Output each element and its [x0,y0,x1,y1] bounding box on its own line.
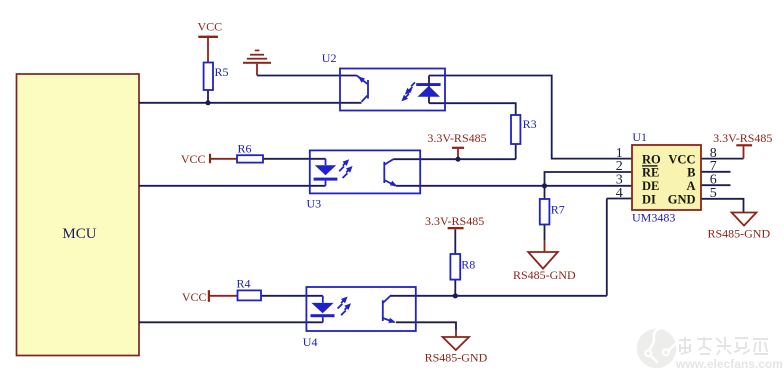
svg-text:U2: U2 [322,51,337,65]
svg-text:R4: R4 [237,277,251,291]
svg-text:3.3V-RS485: 3.3V-RS485 [427,131,486,145]
svg-text:3.3V-RS485: 3.3V-RS485 [425,214,484,228]
svg-text:R3: R3 [523,117,537,131]
svg-text:VCC: VCC [197,20,222,34]
svg-text:DE: DE [642,179,659,193]
svg-text:U3: U3 [307,197,322,211]
svg-text:RS485-GND: RS485-GND [707,227,770,241]
svg-text:VCC: VCC [668,152,695,166]
svg-text:RS485-GND: RS485-GND [425,351,488,365]
svg-text:R5: R5 [215,65,229,79]
svg-text:RS485-GND: RS485-GND [513,268,576,282]
svg-text:UM3483: UM3483 [632,211,675,225]
svg-text:4: 4 [616,186,623,201]
svg-text:GND: GND [668,192,696,206]
svg-text:R8: R8 [461,257,475,271]
svg-text:U4: U4 [303,335,318,349]
svg-text:RE: RE [642,166,659,180]
svg-text:VCC: VCC [181,152,206,166]
svg-text:B: B [687,166,695,180]
svg-text:A: A [686,179,695,193]
svg-text:3.3V-RS485: 3.3V-RS485 [713,131,772,145]
svg-text:www.elecfans.com: www.elecfans.com [675,357,783,371]
svg-text:R7: R7 [551,203,565,217]
svg-text:R6: R6 [238,142,252,156]
svg-text:RO: RO [642,152,661,166]
svg-text:U1: U1 [632,130,647,144]
svg-text:MCU: MCU [62,226,96,242]
svg-text:5: 5 [710,186,717,201]
svg-text:DI: DI [642,192,656,206]
svg-text:VCC: VCC [182,290,207,304]
